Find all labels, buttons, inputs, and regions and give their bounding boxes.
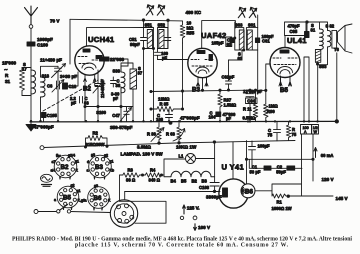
switch	[57, 210, 60, 213]
svg-text:37: 37	[138, 71, 143, 76]
svg-text:10KΩ 1W: 10KΩ 1W	[176, 144, 197, 149]
wire C100 to bus	[30, 46, 32, 122]
svg-text:C62pF: C62pF	[222, 75, 235, 80]
svg-text:105pF: 105pF	[212, 41, 225, 46]
svg-text:160 V: 160 V	[198, 225, 211, 230]
svg-text:pF: pF	[113, 96, 119, 101]
wire S18 top	[41, 66, 59, 77]
top bus wire	[70, 19, 183, 21]
capacitor 100uF electrolytic	[249, 141, 256, 168]
svg-text:11÷490pF: 11÷490pF	[100, 79, 105, 98]
core S83	[315, 50, 320, 63]
svg-text:f: f	[60, 176, 62, 180]
svg-text:R4: R4	[150, 168, 156, 173]
resistor R31 15000	[20, 68, 25, 96]
svg-text:145 V: 145 V	[336, 196, 349, 201]
svg-text:15’000: 15’000	[2, 61, 16, 66]
resistor R37 1.5Mohm	[218, 90, 222, 111]
svg-text:B5: B5	[63, 195, 71, 202]
svg-text:3.9MΩ: 3.9MΩ	[137, 145, 151, 150]
node top of R31/S17	[22, 68, 31, 96]
output transformer primary S81	[320, 29, 324, 49]
resistor R63 10Kohm 1W	[177, 123, 181, 143]
capacitor C104	[216, 112, 221, 117]
svg-text:86 Ω: 86 Ω	[126, 178, 136, 183]
svg-text:R3: R3	[128, 168, 134, 173]
IF trimmer cross pair 1	[146, 5, 153, 15]
svg-text:106: 106	[156, 117, 164, 122]
svg-text:315Ω30W: 315Ω30W	[86, 142, 105, 147]
capacitor C63	[226, 37, 232, 47]
svg-text:C84: C84	[247, 99, 255, 104]
coil S18	[41, 77, 46, 97]
resistor R4 340ohm	[145, 173, 164, 177]
svg-text:S52: S52	[158, 23, 166, 28]
socket B5	[54, 184, 85, 211]
svg-text:B2: B2	[192, 179, 198, 184]
capacitor C108	[210, 177, 219, 192]
capacitor C105	[42, 113, 47, 118]
wires B5 cathode arrows	[279, 76, 292, 86]
svg-text:LAMPAD. 130 V 5W: LAMPAD. 130 V 5W	[121, 152, 164, 157]
capacitor C51 98pF	[141, 28, 147, 49]
svg-text:1.5MΩ: 1.5MΩ	[224, 103, 237, 108]
svg-text:81: 81	[311, 28, 316, 33]
svg-text:1000pF: 1000pF	[37, 37, 53, 42]
padder C47 350-575pF	[122, 107, 132, 122]
svg-text:C108: C108	[199, 185, 210, 190]
tube UL41 (B5)	[270, 48, 300, 78]
svg-text:K: K	[76, 169, 79, 173]
svg-text:75: 75	[292, 132, 297, 137]
wire UCH41 plate to top	[87, 28, 144, 46]
svg-text:B3: B3	[192, 87, 200, 94]
coil S17	[31, 68, 36, 96]
speaker	[332, 24, 352, 53]
svg-text:g2/4: g2/4	[68, 154, 75, 158]
svg-text:placche 115 V, schermi 70 V. C: placche 115 V, schermi 70 V. Corrente to…	[75, 242, 289, 248]
svg-text:75: 75	[268, 133, 273, 138]
svg-text:470pF: 470pF	[288, 24, 301, 29]
svg-text:UAF42: UAF42	[201, 31, 227, 40]
svg-text:125 V.: 125 V.	[187, 205, 200, 210]
svg-text:T6: T6	[334, 47, 340, 52]
capacitor C83 2.2pF	[80, 97, 83, 104]
svg-text:3÷30 pF: 3÷30 pF	[60, 74, 77, 79]
capacitor C38	[111, 77, 117, 87]
trimmer C6	[52, 80, 64, 93]
svg-text:R 85: R 85	[160, 102, 170, 107]
resistor 100ohm 1/2W boxes	[301, 125, 312, 135]
IF trimmer cross pair 2	[238, 7, 245, 17]
svg-text:B6: B6	[245, 188, 253, 195]
main bus	[30, 120, 337, 123]
selector to transformer wire	[120, 201, 167, 223]
coil S38	[121, 66, 125, 93]
screen box UAF42	[202, 21, 236, 48]
AVC line	[151, 90, 250, 91]
svg-text:S63: S63	[235, 23, 243, 28]
arrow 160V	[194, 224, 197, 231]
svg-text:K: K	[108, 199, 111, 203]
svg-text:pF: pF	[162, 56, 168, 61]
tube UAF42 (B3)	[188, 48, 217, 77]
wire UL41 plate top	[285, 22, 320, 48]
wire from 22000	[109, 59, 128, 66]
svg-text:104: 104	[209, 115, 217, 120]
wires IF2 loops	[235, 28, 258, 50]
svg-text:120 V: 120 V	[322, 177, 335, 182]
svg-text:B5: B5	[280, 87, 288, 94]
resistor R1 1000ohm loop	[272, 134, 333, 198]
arrow 60mA	[314, 148, 317, 158]
svg-text:g3: g3	[91, 153, 95, 157]
svg-text:R: R	[5, 73, 9, 78]
svg-text:a: a	[54, 198, 57, 202]
svg-text:C65: C65	[290, 29, 298, 34]
svg-text:1MΩ: 1MΩ	[269, 104, 279, 109]
pickup symbol	[41, 174, 53, 186]
svg-text:S100: S100	[96, 110, 106, 115]
svg-text:B6: B6	[94, 195, 102, 202]
svg-text:g3: g3	[94, 184, 98, 188]
svg-text:C6: C6	[47, 84, 53, 89]
svg-text:47’000pF: 47’000pF	[34, 125, 54, 130]
capacitor C100 1000pF	[27, 42, 35, 46]
tube UCH41 (B2)	[75, 46, 104, 75]
svg-text:a: a	[85, 199, 88, 203]
svg-text:S18: S18	[42, 74, 50, 79]
oscillator variable capacitor 11-490pF	[93, 80, 104, 96]
svg-text:480 KC: 480 KC	[186, 10, 202, 15]
svg-text:g1: g1	[110, 160, 114, 164]
wires UY41	[233, 141, 247, 184]
antenna	[25, 6, 38, 28]
svg-text:f: f	[94, 176, 96, 180]
svg-text:g1: g1	[77, 189, 81, 193]
svg-text:340 Ω: 340 Ω	[149, 178, 161, 183]
resistor R2 315ohm 30W bypass	[86, 136, 108, 147]
svg-text:11÷480 pF: 11÷480 pF	[40, 58, 62, 63]
capacitor C18	[63, 83, 68, 89]
arrow 125V	[183, 205, 186, 214]
svg-text:B3: B3	[95, 164, 103, 171]
svg-text:B4: B4	[171, 179, 177, 184]
svg-text:R 63: R 63	[166, 132, 176, 137]
plug pin top	[40, 146, 44, 150]
capacitor C106	[166, 109, 173, 121]
resistor R75	[286, 122, 290, 141]
ganging dashed line	[43, 80, 98, 111]
svg-text:50 pF: 50 pF	[250, 169, 261, 174]
resistor 22000 grid	[100, 57, 110, 61]
wire R3 down	[119, 175, 121, 201]
svg-text:350-575pF: 350-575pF	[110, 125, 133, 130]
socket B2	[51, 153, 80, 180]
plug pin bottom	[34, 210, 38, 214]
wire oscillator junction line	[85, 106, 133, 108]
svg-text:22’000: 22’000	[110, 57, 124, 62]
capacitor C75	[274, 122, 281, 141]
svg-text:B5: B5	[181, 179, 187, 184]
wires B3 cathode	[197, 77, 209, 86]
resistor R90 1Mohm	[264, 104, 268, 121]
svg-text:Kb: Kb	[110, 169, 115, 173]
svg-text:47’000pF: 47’000pF	[180, 116, 200, 121]
resistor R11 0.5Mohm	[253, 90, 257, 121]
svg-text:12’000 pF: 12’000 pF	[243, 89, 263, 94]
svg-text:g2: g2	[104, 154, 108, 158]
svg-text:70 V: 70 V	[50, 18, 60, 23]
svg-text:pF: pF	[226, 116, 232, 121]
svg-text:B2: B2	[61, 164, 69, 171]
resistor R3 86ohm	[123, 173, 146, 177]
svg-text:R55: R55	[187, 31, 195, 36]
box C65 470pF	[285, 22, 307, 36]
svg-text:aH: aH	[51, 169, 56, 173]
svg-text:R90: R90	[267, 109, 275, 114]
wire C18 to tube grid	[68, 72, 79, 86]
selector line	[125, 191, 220, 193]
svg-text:S38: S38	[113, 69, 121, 74]
voltage selector	[110, 200, 137, 227]
wires oscillator section	[98, 63, 133, 122]
capacitor 100pF	[155, 49, 161, 60]
svg-text:C105: C105	[47, 113, 58, 118]
svg-text:UL41: UL41	[287, 36, 307, 45]
wires IF1 loops	[144, 28, 169, 49]
svg-text:a7: a7	[52, 160, 56, 164]
svg-text:100μF: 100μF	[258, 144, 271, 149]
selector top wire	[124, 192, 126, 200]
svg-text:R2: R2	[93, 131, 99, 136]
svg-text:R1: R1	[277, 200, 283, 205]
socket B3	[87, 153, 115, 180]
wire S18 bottom to bus	[40, 97, 42, 122]
switch S100	[84, 105, 86, 107]
wire R55 down	[182, 43, 184, 109]
svg-text:31: 31	[5, 79, 11, 84]
resistor R85 12Mohm	[151, 107, 183, 112]
svg-text:S 82: S 82	[326, 24, 335, 29]
svg-text:g1: g1	[75, 160, 79, 164]
capacitor C62	[226, 60, 232, 90]
svg-text:g2: g2	[71, 184, 75, 188]
capacitors C1 C2	[247, 159, 314, 168]
svg-text:W: W	[314, 130, 318, 134]
lamp branch wires	[164, 159, 215, 177]
svg-text:1000Ω 1W: 1000Ω 1W	[272, 206, 292, 211]
svg-text:∼: ∼	[4, 67, 8, 72]
capacitor C61 100pF	[255, 38, 259, 43]
svg-text:L1: L1	[179, 154, 185, 159]
svg-text:R 11: R 11	[243, 107, 252, 112]
svg-text:C18: C18	[69, 84, 77, 89]
svg-text:R 36: R 36	[147, 132, 157, 137]
variable capacitor tuning gang section 1	[52, 64, 66, 122]
heater bumps	[164, 171, 215, 177]
capacitor C52	[165, 28, 171, 49]
secondary S82	[328, 30, 331, 47]
svg-text:17: 17	[22, 67, 27, 72]
svg-text:C61: C61	[262, 39, 270, 44]
svg-text:S61: S61	[248, 23, 256, 28]
coil S37 iron core	[130, 69, 137, 89]
capacitor C84 12000pF	[246, 90, 254, 121]
svg-text:C47: C47	[112, 113, 120, 118]
mains line from plug	[44, 141, 295, 148]
svg-text:60 mA: 60 mA	[321, 153, 334, 158]
socket B6	[85, 184, 112, 211]
svg-text:50pF: 50pF	[276, 169, 286, 174]
svg-text:B2: B2	[83, 86, 91, 93]
svg-text:S51: S51	[145, 23, 153, 28]
wires output section	[304, 22, 337, 121]
svg-text:g₁₀: g₁₀	[56, 153, 61, 157]
terminal circles	[180, 216, 183, 219]
wire B+ down right	[312, 134, 314, 181]
resistor R36 3.9Mohm	[157, 123, 161, 143]
svg-text:98pF: 98pF	[130, 42, 140, 47]
svg-text:pF: pF	[71, 101, 77, 106]
switch line	[38, 212, 111, 213]
svg-text:d: d	[87, 160, 89, 164]
capacitor C65 symbol	[305, 32, 310, 38]
wire antenna down	[30, 28, 32, 42]
tube UY41 (B6)	[219, 179, 255, 208]
ground symbol	[26, 122, 36, 131]
svg-text:C100: C100	[37, 43, 48, 48]
svg-text:UCH41: UCH41	[88, 35, 115, 44]
svg-text:38: 38	[116, 83, 121, 88]
svg-text:0.5MΩ: 0.5MΩ	[243, 116, 256, 121]
wire top bus left drop	[69, 19, 71, 64]
heater chain B4 B5 B2 B3	[120, 174, 123, 176]
resistor R55 1.0 Mohm	[180, 21, 185, 43]
svg-text:B3: B3	[202, 179, 208, 184]
